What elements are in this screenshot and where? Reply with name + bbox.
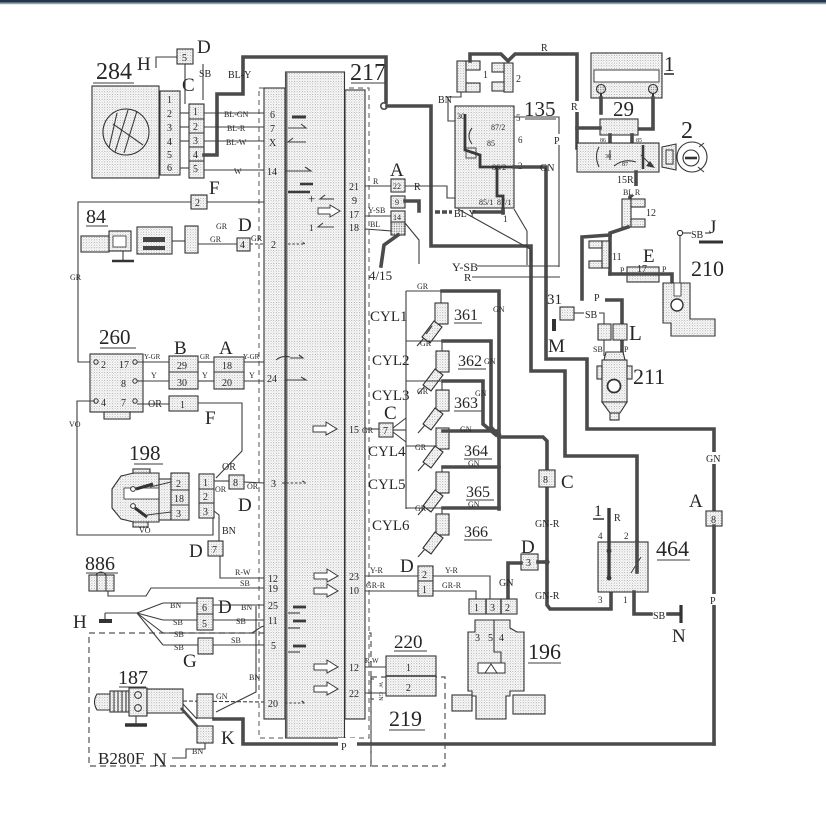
svg-text:1: 1 xyxy=(474,603,479,614)
svg-text:GN-R: GN-R xyxy=(535,519,560,530)
svg-text:1: 1 xyxy=(180,400,185,411)
bracket connector 1 (top) xyxy=(457,61,488,92)
wire GR D4 to pin 2 xyxy=(250,234,264,244)
svg-text:198: 198 xyxy=(129,441,161,465)
svg-text:GN: GN xyxy=(460,425,472,434)
GN wire injector 363 xyxy=(443,381,496,435)
svg-text:2: 2 xyxy=(176,479,181,490)
svg-text:3: 3 xyxy=(167,123,172,134)
connector K boxes xyxy=(181,694,235,749)
svg-text:CYL2: CYL2 xyxy=(372,353,410,369)
relay 464 body xyxy=(598,508,648,605)
svg-text:6: 6 xyxy=(167,163,172,174)
svg-text:H: H xyxy=(137,54,151,75)
svg-text:17: 17 xyxy=(637,264,647,275)
198 connector strip (2,18,3) xyxy=(147,473,189,520)
svg-text:G: G xyxy=(183,651,197,672)
label 217 xyxy=(350,60,386,86)
svg-text:SB: SB xyxy=(653,611,666,622)
GN wire injector 366 xyxy=(443,500,499,509)
spark plug 187 xyxy=(95,667,184,725)
svg-text:4: 4 xyxy=(240,240,245,251)
sensor 84 xyxy=(81,206,198,261)
svg-text:GR-R: GR-R xyxy=(442,581,462,590)
injector 366 xyxy=(406,504,449,557)
svg-text:BN: BN xyxy=(438,95,452,106)
svg-text:K: K xyxy=(221,728,235,749)
svg-text:SB: SB xyxy=(231,636,241,645)
CYL labels xyxy=(368,309,410,534)
svg-text:OR: OR xyxy=(222,462,236,473)
svg-text:GR: GR xyxy=(210,235,222,244)
wire BL-Y thick from C4 to 135 area and main BL-Y run to 464 pin 2 xyxy=(204,57,637,542)
svg-text:BL-R: BL-R xyxy=(227,124,246,133)
bracket connector 11 xyxy=(589,241,622,268)
wire VO loop 260 pin4 to 198 xyxy=(69,401,213,535)
ECU internal pin marks top xyxy=(285,117,340,244)
svg-text:284: 284 xyxy=(96,59,132,85)
svg-text:211: 211 xyxy=(633,364,665,389)
svg-text:BN: BN xyxy=(170,601,181,610)
svg-text:Y: Y xyxy=(151,371,157,380)
svg-text:Y: Y xyxy=(202,371,208,380)
connector A cell 4 hatched xyxy=(391,222,419,264)
bottom P wire xyxy=(214,719,714,753)
svg-text:11: 11 xyxy=(268,616,278,627)
svg-text:GN: GN xyxy=(216,692,228,701)
connector C box 8 xyxy=(539,470,555,487)
svg-text:N: N xyxy=(672,626,686,647)
svg-text:R: R xyxy=(614,513,621,524)
wires 260 row Y-GR xyxy=(137,353,264,362)
svg-text:5: 5 xyxy=(167,150,172,161)
wire Y-SB thin from ECU xyxy=(452,260,559,274)
label 364 xyxy=(464,443,492,460)
svg-text:30: 30 xyxy=(605,154,611,160)
svg-text:GR: GR xyxy=(251,234,263,243)
svg-text:SB: SB xyxy=(593,345,603,354)
svg-text:BN: BN xyxy=(241,603,252,612)
svg-text:D: D xyxy=(238,495,252,516)
ECU left pin numbers bottom xyxy=(268,574,278,710)
svg-text:5: 5 xyxy=(488,633,493,644)
svg-text:R-W: R-W xyxy=(365,657,379,665)
svg-text:R: R xyxy=(373,177,379,186)
label 464 xyxy=(656,536,690,561)
svg-text:P: P xyxy=(554,136,560,147)
svg-text:19: 19 xyxy=(268,584,278,595)
svg-text:BL-W: BL-W xyxy=(226,138,247,147)
svg-text:CYL4: CYL4 xyxy=(368,444,406,460)
label 363 xyxy=(454,395,482,412)
svg-text:210: 210 xyxy=(691,256,724,281)
connector D box 6/5 xyxy=(197,598,213,630)
wire R-W pin12 to 220 xyxy=(365,657,386,667)
connector D box 7 xyxy=(208,541,223,556)
wires 260 row OR to box 1 xyxy=(137,396,242,478)
svg-text:84: 84 xyxy=(86,206,106,228)
wire SB 886 to pin 19 xyxy=(108,579,264,596)
svg-text:GR-R: GR-R xyxy=(366,581,386,590)
ground J xyxy=(677,217,723,242)
wire R from A22 to 135 pin4 xyxy=(405,182,455,198)
svg-text:GR: GR xyxy=(415,504,427,513)
svg-text:GN: GN xyxy=(499,578,513,589)
svg-text:4: 4 xyxy=(499,633,504,644)
svg-text:3: 3 xyxy=(176,509,181,520)
bracket connector 12 xyxy=(622,199,656,227)
svg-text:217: 217 xyxy=(350,60,386,86)
svg-text:R-W: R-W xyxy=(235,568,251,577)
svg-text:18: 18 xyxy=(349,223,359,234)
wire GR loop 260 pin2 to F2 to ECU xyxy=(70,202,264,362)
svg-text:BL: BL xyxy=(370,220,380,229)
wire Y-R D2 to 196 pin3 xyxy=(433,566,490,599)
connector A (260) xyxy=(214,338,244,389)
wires 29 to relay xyxy=(600,135,642,148)
svg-text:CYL6: CYL6 xyxy=(372,518,410,534)
svg-text:BL Y: BL Y xyxy=(454,209,476,220)
wire BN to D6 xyxy=(163,601,197,610)
svg-text:SB: SB xyxy=(174,630,184,639)
label R on vertical xyxy=(570,101,582,113)
svg-text:X: X xyxy=(269,138,277,149)
connector D boxes 2/1 (ECU right) xyxy=(418,566,433,596)
svg-text:260: 260 xyxy=(99,325,131,349)
wire BN drop to K xyxy=(216,606,260,712)
svg-text:31: 31 xyxy=(547,292,562,308)
svg-text:85/1: 85/1 xyxy=(479,198,493,207)
connector D box 3 xyxy=(521,554,547,570)
svg-text:21: 21 xyxy=(349,182,359,193)
connector strip 196 (1,3,2) xyxy=(469,599,517,614)
svg-text:87: 87 xyxy=(622,162,628,168)
svg-text:BN: BN xyxy=(249,673,260,682)
198 connector D strip (1,2,3) xyxy=(199,474,214,518)
svg-text:GR: GR xyxy=(200,353,210,361)
wire W C5 to pin 14 xyxy=(204,167,264,176)
svg-text:C: C xyxy=(182,75,195,96)
wire GN 187 to pin 20 xyxy=(183,692,264,702)
wire GN from D3 to 196 connector xyxy=(499,563,521,599)
svg-text:12: 12 xyxy=(646,208,656,219)
label 196 xyxy=(528,639,561,664)
svg-text:187: 187 xyxy=(118,667,148,689)
wires from box 5 down to C xyxy=(185,64,203,104)
svg-text:J: J xyxy=(709,217,716,238)
svg-text:10: 10 xyxy=(349,586,359,597)
svg-text:D: D xyxy=(521,537,535,558)
bracket connector 2 (top) xyxy=(492,63,521,92)
svg-text:17: 17 xyxy=(119,360,129,371)
wire Y-R pin23 to D2 xyxy=(365,566,418,576)
svg-text:C: C xyxy=(384,403,397,424)
svg-text:2: 2 xyxy=(271,240,276,251)
wire R thin from ECU to E17 xyxy=(464,272,560,284)
GN wire injector 365 xyxy=(443,459,499,468)
svg-text:4: 4 xyxy=(193,150,198,161)
svg-text:2: 2 xyxy=(101,360,106,371)
connector A cell 9 xyxy=(391,196,405,208)
svg-text:P: P xyxy=(710,596,716,607)
svg-text:4: 4 xyxy=(101,398,106,409)
wire R pin21 to A22 xyxy=(365,177,391,186)
wire GR-R pin10 to D1 xyxy=(365,581,418,591)
svg-text:W: W xyxy=(377,682,383,688)
svg-text:GR: GR xyxy=(70,273,82,282)
ignition switch 2 symbol xyxy=(662,142,707,172)
wire BL-W C3 to pin X xyxy=(204,138,264,147)
svg-text:6: 6 xyxy=(518,135,523,145)
ECU 217 dashed boundary xyxy=(259,88,369,738)
connector B (260) xyxy=(169,338,198,389)
svg-text:5: 5 xyxy=(182,53,187,64)
wire BN K to ground N xyxy=(172,743,205,758)
label 361 xyxy=(454,307,482,324)
injector 363 xyxy=(406,381,449,433)
svg-text:2: 2 xyxy=(516,74,521,85)
GR bus vertical xyxy=(405,291,407,509)
svg-text:+: + xyxy=(308,191,315,206)
connector E box 17 xyxy=(620,265,667,282)
svg-text:2: 2 xyxy=(624,531,629,541)
svg-text:D: D xyxy=(400,556,414,577)
svg-text:7: 7 xyxy=(212,545,217,556)
svg-text:22: 22 xyxy=(393,182,401,191)
svg-text:2: 2 xyxy=(406,683,411,694)
svg-text:P: P xyxy=(594,293,600,304)
svg-text:SB: SB xyxy=(199,69,212,80)
svg-text:20: 20 xyxy=(222,378,232,389)
svg-text:87/1: 87/1 xyxy=(497,198,511,207)
top border line xyxy=(0,0,826,3)
svg-text:2: 2 xyxy=(203,492,208,503)
svg-text:18: 18 xyxy=(174,494,184,505)
svg-text:GN: GN xyxy=(493,305,505,314)
svg-text:D: D xyxy=(197,37,211,58)
svg-text:OR: OR xyxy=(247,482,259,491)
wire P right edge down to bottom xyxy=(708,526,719,744)
wires 284 to C xyxy=(180,113,189,168)
svg-text:1: 1 xyxy=(623,595,628,605)
H bracket wire xyxy=(156,57,177,68)
connector C strip pins 1-5 xyxy=(189,104,204,178)
svg-text:2: 2 xyxy=(505,603,510,614)
wire BL pin18 to A4 xyxy=(365,220,392,231)
svg-text:3: 3 xyxy=(526,558,531,569)
component 886 xyxy=(85,553,118,591)
svg-text:23: 23 xyxy=(349,572,359,583)
svg-text:SB: SB xyxy=(236,617,246,626)
label 219 xyxy=(389,706,425,731)
svg-text:18: 18 xyxy=(222,361,232,372)
svg-text:5: 5 xyxy=(516,113,521,123)
svg-text:SB: SB xyxy=(585,310,598,321)
wire 4/15 stub from A4 xyxy=(369,235,398,283)
svg-text:2: 2 xyxy=(422,570,427,581)
svg-text:BL-Y: BL-Y xyxy=(228,70,251,81)
svg-text:Y-GR: Y-GR xyxy=(144,353,161,361)
svg-text:GN: GN xyxy=(468,500,480,509)
wire 15R relay to bracket 12 xyxy=(617,172,636,199)
svg-text:SB: SB xyxy=(691,230,704,241)
ECU 217 right connector strip xyxy=(345,90,365,719)
GR fan lines from box 7 xyxy=(393,418,406,442)
ECU internal marks middle xyxy=(276,355,337,483)
svg-text:GR: GR xyxy=(420,339,432,348)
svg-text:5: 5 xyxy=(271,641,276,652)
svg-text:P: P xyxy=(624,345,629,354)
injector 362 xyxy=(406,339,449,394)
wire SB to D5 xyxy=(163,618,197,627)
wire R top from bracket1 to relay 29 xyxy=(470,43,577,148)
svg-text:366: 366 xyxy=(464,524,488,541)
svg-text:3: 3 xyxy=(475,633,480,644)
219 dashed boundary xyxy=(371,677,445,766)
svg-text:CYL1: CYL1 xyxy=(370,309,408,325)
label 1 (battery) xyxy=(664,52,675,76)
connector A cell 14 xyxy=(391,211,405,223)
svg-text:A: A xyxy=(219,338,233,359)
label GN right edge xyxy=(706,452,724,465)
svg-text:CYL5: CYL5 xyxy=(368,477,406,493)
wire BN D6 to pin 25 xyxy=(213,603,264,612)
svg-text:BL R: BL R xyxy=(623,188,641,197)
svg-text:Y-SB: Y-SB xyxy=(368,206,385,215)
connector F box 2 xyxy=(191,195,207,209)
svg-text:8: 8 xyxy=(543,475,548,486)
svg-text:464: 464 xyxy=(656,536,689,561)
svg-text:4/15: 4/15 xyxy=(369,268,392,283)
wire BL-R C2 to pin 7 xyxy=(204,124,264,133)
svg-text:1: 1 xyxy=(594,503,602,520)
svg-text:D: D xyxy=(238,215,252,236)
svg-text:1: 1 xyxy=(406,663,411,674)
battery terminal leads xyxy=(601,98,653,129)
svg-text:1: 1 xyxy=(483,70,488,81)
svg-text:BN: BN xyxy=(222,526,236,537)
svg-text:1: 1 xyxy=(422,585,427,596)
svg-text:GR: GR xyxy=(216,222,228,231)
component 220 xyxy=(386,632,436,696)
connector 31 box xyxy=(547,292,604,324)
svg-text:OR: OR xyxy=(148,399,162,410)
connector D box 5 xyxy=(177,49,193,64)
GN bus output to C8 / D3 / 464 pin3 xyxy=(499,437,611,609)
wire BN 198-D3 to D7 xyxy=(214,511,236,541)
svg-text:2: 2 xyxy=(167,109,172,120)
svg-text:30: 30 xyxy=(177,378,187,389)
connector L cells xyxy=(593,321,642,356)
injector 361 xyxy=(406,282,448,346)
wire SB middle xyxy=(163,626,264,639)
GN wire injector 364 xyxy=(443,425,499,434)
svg-text:GN: GN xyxy=(468,459,480,468)
svg-text:GN-R: GN-R xyxy=(535,591,560,602)
svg-text:BN: BN xyxy=(192,747,203,756)
terminal 1 stub label xyxy=(593,503,621,524)
H junction fan xyxy=(137,603,163,645)
svg-text:D: D xyxy=(218,597,232,618)
svg-text:VO: VO xyxy=(69,420,81,429)
svg-text:GN: GN xyxy=(540,163,554,174)
terminal M xyxy=(548,319,565,357)
svg-text:SB: SB xyxy=(173,618,183,627)
135 triangle flourish xyxy=(458,209,531,265)
svg-text:GR: GR xyxy=(415,443,427,452)
135 outside pin labels xyxy=(503,113,523,224)
wire SB D5 to pin 11 xyxy=(213,617,264,626)
svg-text:219: 219 xyxy=(389,706,422,731)
svg-text:Y-R: Y-R xyxy=(370,566,384,575)
svg-text:H: H xyxy=(73,612,87,633)
svg-text:GN: GN xyxy=(706,454,720,465)
svg-text:1: 1 xyxy=(193,107,198,118)
svg-text:F: F xyxy=(205,408,216,429)
svg-text:7: 7 xyxy=(270,124,275,135)
component 284 body xyxy=(92,86,159,178)
label 365 xyxy=(466,484,494,501)
284 connector strip pins 1-6 xyxy=(160,91,180,175)
wire GR 84 to D4 xyxy=(198,222,237,244)
component 210 xyxy=(663,283,715,336)
ECU 217 left connector strip xyxy=(264,88,285,719)
connector A box 8 (right edge) xyxy=(706,511,722,526)
svg-text:P: P xyxy=(341,742,347,753)
GN wire injector 362 xyxy=(443,341,497,434)
svg-text:85: 85 xyxy=(487,139,495,148)
svg-text:7: 7 xyxy=(383,426,388,437)
svg-text:22: 22 xyxy=(349,689,359,700)
ground H xyxy=(73,612,137,633)
ECU internal marks bottom xyxy=(285,569,338,703)
svg-text:15: 15 xyxy=(349,425,359,436)
svg-text:R: R xyxy=(571,102,578,113)
battery 1 body xyxy=(591,53,662,98)
svg-text:3: 3 xyxy=(203,507,208,518)
svg-text:4: 4 xyxy=(598,531,603,541)
svg-text:2: 2 xyxy=(193,122,198,133)
wire R-W D7 to pin 12 xyxy=(220,556,264,578)
wire SB G to pin 5 xyxy=(213,636,264,645)
connector D box 4 xyxy=(237,238,250,251)
svg-text:R: R xyxy=(414,182,421,193)
svg-text:N: N xyxy=(153,750,167,771)
wire BN bracket1 to 135 pin30 xyxy=(438,92,461,121)
wire bracket12 to 211 injector (P) xyxy=(582,227,628,384)
relay box (main relay) xyxy=(577,143,659,172)
relay 135 body xyxy=(455,106,514,208)
wire E17 to 210 xyxy=(610,236,680,301)
svg-text:A: A xyxy=(390,160,404,181)
svg-text:Y-GR: Y-GR xyxy=(243,353,260,361)
svg-text:8: 8 xyxy=(121,379,126,390)
component 260 xyxy=(90,325,143,419)
svg-text:1: 1 xyxy=(503,214,508,224)
ECU 217 middle strip xyxy=(286,72,345,738)
svg-text:OR: OR xyxy=(215,485,227,494)
ECU right pin numbers xyxy=(349,182,359,700)
svg-text:R: R xyxy=(464,272,472,284)
svg-text:86/2: 86/2 xyxy=(492,163,506,172)
svg-text:1: 1 xyxy=(664,52,675,76)
svg-text:14: 14 xyxy=(393,213,401,222)
svg-text:GR: GR xyxy=(417,282,429,291)
svg-text:6: 6 xyxy=(202,603,207,614)
svg-text:5: 5 xyxy=(202,619,207,630)
svg-text:6: 6 xyxy=(270,110,275,121)
svg-text:20: 20 xyxy=(268,699,278,710)
